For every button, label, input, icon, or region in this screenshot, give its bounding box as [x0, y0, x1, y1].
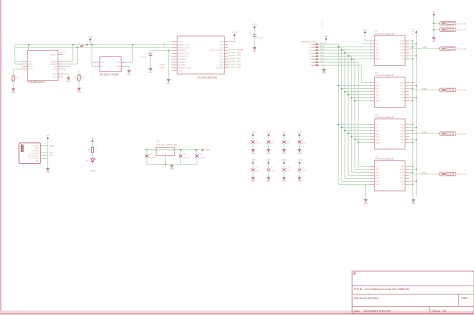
svg-text:GND: GND	[297, 153, 302, 155]
svg-text:7: 7	[309, 62, 310, 64]
svg-text:DCP040105-ABZLAT: DCP040105-ABZLAT	[375, 116, 395, 119]
svg-text:R3: R3	[88, 150, 90, 152]
svg-text:PW0: PW0	[400, 127, 404, 129]
svg-text:GND: GND	[266, 181, 271, 183]
svg-text:18pF 50V: 18pF 50V	[199, 158, 207, 160]
svg-text:GND: GND	[166, 83, 171, 85]
svg-text:CS3: CS3	[237, 61, 241, 63]
svg-text:GND: GND	[46, 172, 51, 174]
svg-text:PW1: PW1	[400, 95, 404, 97]
svg-text:PB1: PB1	[400, 139, 403, 141]
svg-text:(TS-USB): (TS-USB)	[457, 23, 466, 25]
svg-text:(TS-USB): (TS-USB)	[457, 90, 466, 92]
svg-text:PIC16F1459-I/SS: PIC16F1459-I/SS	[198, 77, 218, 80]
svg-text:RB7: RB7	[220, 42, 224, 44]
svg-text:DCP040105-ABZLAT: DCP040105-ABZLAT	[375, 158, 395, 161]
svg-text:MOSI: MOSI	[320, 46, 325, 48]
svg-text:CS1: CS1	[237, 55, 241, 57]
svg-text:CS1: CS1	[320, 52, 324, 54]
svg-text:RB4/AN10/SDA: RB4/AN10/SDA	[178, 67, 191, 70]
svg-text:RC7: RC7	[219, 59, 223, 61]
svg-text:PA1: PA1	[401, 132, 404, 135]
svg-text:SDO: SDO	[376, 92, 380, 94]
svg-text:4.7uF 16V: 4.7uF 16V	[138, 57, 147, 59]
svg-text:RC6: RC6	[219, 56, 223, 58]
svg-text:GND: GND	[282, 153, 287, 155]
svg-text:GND: GND	[432, 41, 437, 43]
svg-text:1/1: 1/1	[442, 309, 447, 313]
svg-text:C7: C7	[302, 140, 304, 142]
svg-text:PA0: PA0	[401, 165, 404, 168]
svg-text:C3: C3	[147, 52, 149, 54]
svg-text:GND: GND	[297, 181, 302, 183]
svg-text:VOUT: VOUT	[115, 62, 121, 64]
svg-text:TSW-108-07-G-S: TSW-108-07-G-S	[301, 41, 317, 43]
svg-text:GND: GND	[66, 81, 71, 83]
svg-text:GND: GND	[11, 92, 16, 94]
svg-text:PA1: PA1	[401, 174, 404, 177]
svg-text:DCP040105-ABZLAT: DCP040105-ABZLAT	[375, 74, 395, 77]
svg-text:R2: R2	[74, 77, 76, 79]
svg-text:ICSPD: ICSPD	[160, 65, 166, 67]
svg-text:PG06: PG06	[422, 132, 427, 134]
svg-text:RC1/AN5: RC1/AN5	[178, 61, 186, 64]
svg-text:SDI: SDI	[376, 172, 379, 174]
svg-text:v1: v1	[321, 21, 323, 23]
svg-text:RA1/D-/ICSPC: RA1/D-/ICSPC	[178, 46, 191, 49]
svg-text:Document Number:: Document Number:	[354, 296, 380, 300]
svg-text:REV:: REV:	[462, 296, 469, 300]
svg-text:RA0/D+/ICSP: RA0/D+/ICSP	[178, 43, 190, 46]
svg-text:GND: GND	[282, 181, 287, 183]
svg-text:C4: C4	[255, 140, 257, 142]
svg-text:SHDN: SHDN	[376, 142, 382, 144]
svg-text:(TS-USB): (TS-USB)	[457, 174, 466, 176]
svg-text:18pF 50V: 18pF 50V	[149, 158, 157, 160]
svg-text:CS2: CS2	[320, 55, 324, 57]
svg-text:C11: C11	[302, 168, 305, 170]
svg-text:GND: GND	[251, 153, 256, 155]
svg-text:1: 1	[309, 44, 310, 46]
svg-text:GND: GND	[148, 72, 153, 74]
svg-text:C10: C10	[286, 168, 289, 170]
svg-text:C17: C17	[199, 154, 202, 156]
svg-text:2: 2	[309, 47, 310, 49]
svg-text:R1: R1	[16, 78, 18, 80]
svg-text:RC0/AN4: RC0/AN4	[178, 58, 186, 61]
svg-text:8: 8	[309, 65, 310, 67]
svg-text:PG05: PG05	[422, 89, 427, 91]
svg-text:RC5: RC5	[219, 53, 223, 55]
svg-text:11/21/2012 9:57 PM: 11/21/2012 9:57 PM	[364, 309, 391, 313]
svg-text:D+: D+	[163, 43, 165, 45]
svg-text:CS3: CS3	[320, 58, 324, 60]
svg-text:10k: 10k	[81, 77, 84, 79]
svg-text:+3.3V: +3.3V	[266, 160, 272, 162]
svg-text:Date:: Date:	[354, 309, 361, 313]
svg-text:PB0: PB0	[400, 172, 403, 174]
svg-text:SDO: SDO	[376, 133, 380, 135]
svg-text:PG04: PG04	[422, 47, 427, 49]
svg-text:ECS-80-S-4 8MHZ CSM: ECS-80-S-4 8MHZ CSM	[156, 145, 177, 147]
svg-text:CS2: CS2	[237, 58, 241, 60]
svg-text:C1: C1	[78, 42, 80, 44]
svg-text:VCCIO: VCCIO	[60, 52, 67, 54]
svg-text:PW0: PW0	[400, 44, 404, 46]
svg-text:PG3: PG3	[49, 155, 53, 157]
svg-text:GND: GND	[364, 203, 369, 205]
svg-text:+3.3V: +3.3V	[282, 160, 288, 162]
svg-text:(TS-USB): (TS-USB)	[457, 49, 466, 51]
svg-text:SDI: SDI	[376, 89, 379, 91]
svg-text:PB0: PB0	[400, 47, 403, 49]
svg-text:SDI/SA: SDI/SA	[237, 48, 244, 51]
svg-text:C5: C5	[271, 140, 273, 142]
svg-text:GND: GND	[127, 74, 132, 76]
svg-text:CS4: CS4	[320, 61, 324, 63]
svg-text:GND1: GND1	[49, 146, 54, 148]
svg-text:SDI: SDI	[376, 47, 379, 49]
svg-text:PW1: PW1	[400, 178, 404, 180]
svg-text:+3.3V: +3.3V	[297, 132, 303, 134]
svg-text:MIC5205-3.3YM5: MIC5205-3.3YM5	[100, 74, 119, 77]
svg-text:Sheet:: Sheet:	[432, 309, 441, 313]
svg-text:C8: C8	[255, 168, 257, 170]
svg-text:6: 6	[309, 59, 310, 61]
svg-text:GND: GND	[411, 203, 416, 205]
svg-text:SDO: SDO	[376, 175, 380, 177]
svg-text:RA5/CLKIN: RA5/CLKIN	[178, 55, 188, 58]
svg-text:PA0: PA0	[401, 123, 404, 126]
svg-text:PB1: PB1	[400, 181, 403, 183]
svg-text:RA5: RA5	[220, 64, 224, 67]
svg-text:RB6: RB6	[220, 44, 224, 46]
svg-text:LED1: LED1	[85, 160, 90, 162]
svg-text:C9: C9	[271, 168, 273, 170]
svg-text:+3.3V: +3.3V	[297, 160, 303, 162]
svg-text:GND: GND	[170, 169, 175, 171]
svg-text:2: 2	[165, 154, 166, 156]
svg-text:TITLE:: TITLE:	[354, 287, 363, 291]
svg-text:PW1: PW1	[400, 136, 404, 138]
svg-text:PG07: PG07	[422, 173, 427, 175]
svg-text:(TS-USB): (TS-USB)	[457, 30, 466, 32]
svg-text:ICSPDAT: ICSPDAT	[215, 67, 224, 70]
svg-text:RA4/CLKOUT: RA4/CLKOUT	[178, 52, 190, 55]
svg-text:PA0: PA0	[401, 40, 404, 43]
svg-text:v1: v1	[321, 23, 323, 25]
svg-text:4: 4	[309, 53, 310, 55]
svg-text:GND: GND	[251, 181, 256, 183]
svg-text:+3.3V: +3.3V	[251, 132, 257, 134]
svg-text:mcp-digital-pot-eval-4ch-USB-v: mcp-digital-pot-eval-4ch-USB-v01	[365, 287, 410, 291]
svg-text:SHDN: SHDN	[376, 101, 382, 103]
svg-text:PB0: PB0	[400, 130, 403, 132]
svg-text:GND: GND	[53, 77, 58, 79]
svg-text:+3.3V: +3.3V	[232, 32, 238, 34]
svg-text:Q1: Q1	[157, 141, 160, 143]
svg-text:+3.3V: +3.3V	[324, 36, 330, 38]
svg-text:v1: v1	[321, 26, 323, 28]
svg-text:SHDN: SHDN	[376, 184, 382, 186]
svg-text:(TS-USB): (TS-USB)	[457, 134, 466, 136]
svg-text:+3.3V: +3.3V	[88, 37, 94, 39]
svg-text:PB1: PB1	[400, 98, 403, 100]
svg-text:PA1: PA1	[401, 49, 404, 52]
svg-text:SDO: SDO	[376, 50, 380, 52]
svg-text:NC2: NC2	[53, 69, 57, 71]
svg-text:+3.3V: +3.3V	[251, 160, 257, 162]
svg-text:PB1: PB1	[400, 56, 403, 58]
svg-text:SDI: SDI	[376, 130, 379, 132]
svg-text:MISO: MISO	[320, 49, 325, 51]
svg-text:3V3OUT: 3V3OUT	[49, 54, 57, 56]
svg-text:RC2/AN6: RC2/AN6	[178, 64, 186, 67]
svg-text:DCP040105-ABZLAT: DCP040105-ABZLAT	[375, 32, 395, 35]
svg-text:VUSB3V3: VUSB3V3	[178, 50, 186, 52]
svg-text:PW1: PW1	[400, 53, 404, 55]
svg-text:+3.3V: +3.3V	[266, 132, 272, 134]
svg-text:1k: 1k	[95, 150, 97, 152]
svg-text:RC3: RC3	[219, 47, 223, 49]
svg-text:GND: GND	[252, 51, 257, 53]
svg-text:3: 3	[309, 50, 310, 52]
svg-text:GND: GND	[77, 92, 82, 94]
svg-text:FT232RLSSOP: FT232RLSSOP	[28, 81, 45, 84]
svg-text:C22: C22	[249, 33, 252, 35]
svg-text:3: 3	[172, 150, 173, 152]
svg-text:18pF 50V: 18pF 50V	[183, 158, 191, 160]
svg-text:C6: C6	[286, 140, 288, 142]
svg-text:C16: C16	[183, 154, 186, 156]
svg-text:+3.3V: +3.3V	[252, 24, 258, 26]
svg-text:TEST: TEST	[52, 74, 58, 76]
svg-text:PW0: PW0	[400, 86, 404, 88]
svg-text:PA0: PA0	[401, 82, 404, 85]
svg-text:1: 1	[158, 150, 159, 152]
svg-text:CS4: CS4	[237, 64, 241, 66]
svg-text:SHDN: SHDN	[376, 59, 382, 61]
svg-text:RA4: RA4	[220, 61, 224, 64]
svg-text:GREEN: GREEN	[90, 171, 97, 173]
svg-text:PA1: PA1	[401, 91, 404, 94]
svg-text:GND: GND	[322, 73, 327, 75]
svg-text:ICSPC: ICSPC	[160, 67, 166, 69]
svg-text:+3.3V: +3.3V	[282, 132, 288, 134]
svg-text:1uF 16V: 1uF 16V	[257, 38, 265, 40]
svg-text:C15: C15	[149, 154, 152, 156]
svg-text:+3.3V: +3.3V	[363, 29, 369, 31]
svg-text:MCLR/VPP/RA3: MCLR/VPP/RA3	[210, 49, 223, 52]
svg-text:5: 5	[309, 56, 310, 58]
svg-text:PB0: PB0	[400, 89, 403, 91]
svg-text:PW0: PW0	[400, 169, 404, 171]
svg-text:GND: GND	[266, 153, 271, 155]
